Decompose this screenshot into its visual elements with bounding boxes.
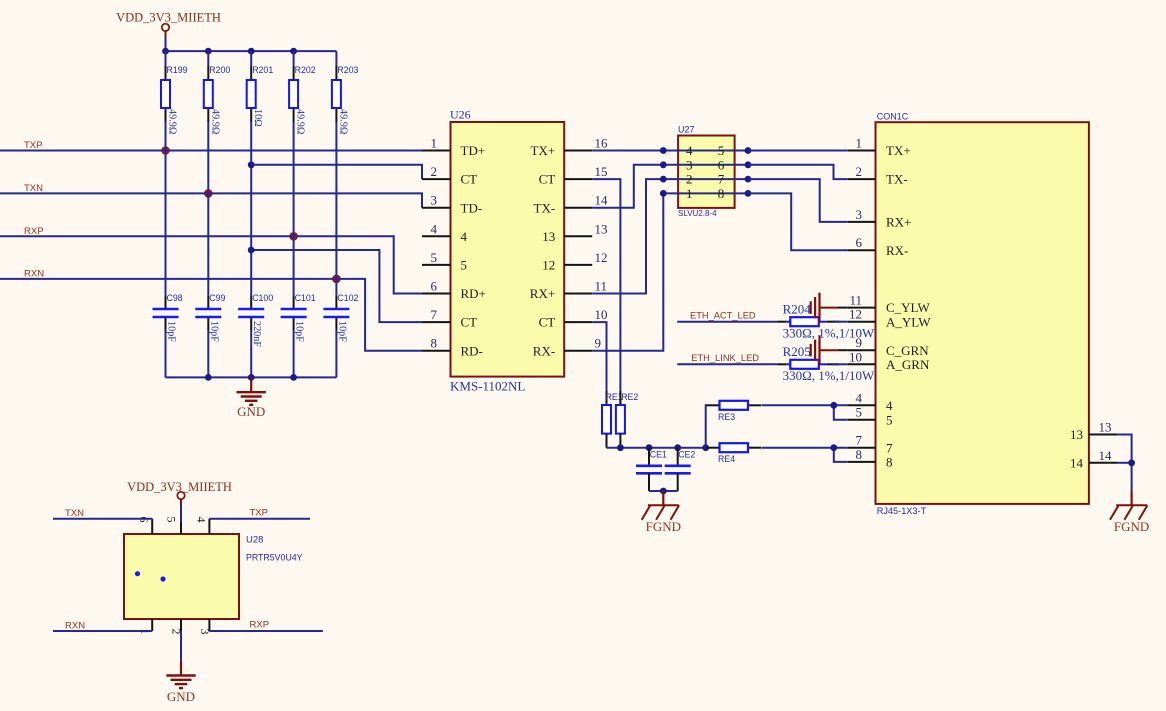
resistor R199 [165, 66, 167, 80]
svg-text:C_GRN: C_GRN [886, 343, 929, 358]
resistor RE4 [706, 443, 762, 464]
resistor R205 [777, 344, 875, 383]
svg-text:TX-: TX- [534, 200, 556, 215]
wire RE4 to CON1C pins 7/8 [762, 448, 848, 462]
junction [162, 48, 169, 55]
U26 pin 8 stub [422, 350, 451, 352]
svg-text:TX+: TX+ [531, 143, 556, 158]
wire TX center-tap to U26 pin 2 [251, 165, 422, 179]
svg-text:2: 2 [856, 164, 863, 179]
svg-text:GND: GND [237, 404, 265, 419]
svg-text:10pF: 10pF [166, 321, 177, 342]
junction [248, 374, 255, 381]
U26 pin 5 stub [422, 264, 451, 266]
svg-text:CT: CT [539, 172, 556, 187]
U26 pin 9 stub [564, 350, 592, 352]
svg-text:4: 4 [461, 229, 468, 244]
junction (red) [204, 189, 213, 198]
svg-text:7: 7 [886, 440, 893, 455]
svg-text:7: 7 [431, 307, 438, 322]
svg-text:10: 10 [595, 307, 608, 322]
U26 pin 3 stub [422, 207, 451, 209]
TVS diode U28 PRTR5V0U4Y [124, 534, 303, 619]
svg-text:RXN: RXN [65, 621, 85, 632]
U28 pin 5 stub [165, 517, 182, 535]
svg-text:5: 5 [431, 250, 438, 265]
CON1C pin 11 stub [848, 293, 931, 316]
ground (rotated) at CON1C pin11 [811, 293, 848, 323]
CON1C pin 9 stub [848, 335, 930, 358]
U26 pin 10 stub [564, 321, 592, 323]
svg-text:16: 16 [595, 136, 609, 151]
svg-text:3: 3 [686, 157, 693, 172]
U28 pin 4 stub [195, 517, 210, 535]
wire TX- to CON1C pin2 [748, 165, 848, 179]
junction [660, 176, 667, 183]
CON1C pin 6 stub [848, 235, 909, 258]
svg-text:TD+: TD+ [461, 143, 486, 158]
wire RX- to CON1C pin6 [748, 193, 848, 250]
svg-text:RX+: RX+ [886, 215, 911, 230]
svg-text:C_YLW: C_YLW [886, 300, 931, 315]
svg-text:49.9Ω: 49.9Ω [337, 109, 348, 135]
junction [660, 488, 667, 495]
ground (rotated) at CON1C pin9 [811, 335, 848, 365]
junction [290, 48, 297, 55]
junction [205, 374, 212, 381]
svg-text:13: 13 [595, 221, 608, 236]
svg-text:14: 14 [1070, 455, 1084, 470]
svg-text:TD-: TD- [461, 200, 483, 215]
svg-text:5: 5 [461, 258, 468, 273]
svg-text:U28: U28 [246, 535, 263, 546]
svg-text:A_GRN: A_GRN [886, 357, 930, 372]
junction [745, 147, 752, 154]
resistor R203 [335, 66, 337, 80]
capacitor C100 [250, 296, 252, 309]
U26 pin 11 stub [564, 293, 592, 295]
ground GND (U28) [166, 661, 195, 704]
wire RE3 left leg [705, 405, 708, 447]
svg-text:A_YLW: A_YLW [886, 314, 931, 329]
svg-text:R201: R201 [252, 65, 273, 75]
svg-text:CT: CT [461, 172, 478, 187]
CON1C pin 12 stub [848, 307, 932, 330]
svg-text:2: 2 [431, 164, 438, 179]
svg-text:RD+: RD+ [461, 286, 486, 301]
U28 pin 1 stub [138, 619, 152, 635]
junction [248, 161, 255, 168]
junction [745, 176, 752, 183]
wire U26 TX- (pin14) to U27 row [592, 165, 663, 208]
resistor R204 [777, 301, 875, 340]
svg-text:SLVU2.8-4: SLVU2.8-4 [678, 209, 717, 218]
svg-text:C101: C101 [295, 293, 316, 303]
wire TXP net [0, 150, 422, 152]
junction (red) [161, 146, 170, 155]
wire R204 to CON1C pin12 [833, 321, 848, 323]
svg-text:4: 4 [886, 398, 893, 413]
U27 pin digits [686, 143, 725, 201]
svg-text:PRTR5V0U4Y: PRTR5V0U4Y [246, 553, 303, 563]
svg-text:TXN: TXN [65, 508, 84, 519]
svg-text:10pF: 10pF [336, 321, 347, 342]
wire CE join [649, 490, 678, 492]
junction [660, 190, 667, 197]
resistor RE3 [706, 401, 762, 422]
wire U28 pin2 to GND [180, 631, 182, 661]
wire TXN net [0, 193, 422, 207]
CON1C pin 3 stub [848, 207, 912, 230]
capacitor C99 [207, 296, 209, 309]
svg-text:4: 4 [686, 143, 693, 158]
svg-text:14: 14 [1099, 448, 1113, 463]
svg-text:R200: R200 [209, 65, 230, 75]
wire C100 to ground bus [250, 330, 252, 377]
resistor R202 [293, 66, 295, 80]
wire U26 TX+ (pin16) to U27 row [592, 150, 663, 152]
svg-text:RXP: RXP [24, 226, 44, 237]
wire RXN net [0, 279, 422, 351]
svg-text:14: 14 [595, 193, 609, 208]
svg-text:9: 9 [595, 336, 602, 351]
wire U26 CT (pin10) down to RE1 [592, 322, 606, 405]
svg-text:C99: C99 [209, 293, 225, 303]
svg-text:13: 13 [1099, 420, 1112, 435]
svg-text:RXP: RXP [250, 620, 270, 631]
svg-text:R203: R203 [337, 65, 358, 75]
wire ETH_ACT_LED to R204 [677, 321, 777, 323]
svg-text:11: 11 [595, 279, 608, 294]
svg-text:1: 1 [686, 186, 693, 201]
svg-text:49.9Ω: 49.9Ω [167, 109, 178, 135]
svg-text:KMS-1102NL: KMS-1102NL [450, 379, 525, 394]
svg-text:11: 11 [849, 293, 862, 308]
junction [660, 161, 667, 168]
junction [646, 444, 653, 451]
svg-text:C98: C98 [167, 293, 183, 303]
junction [745, 190, 752, 197]
junction (red) [332, 275, 341, 284]
U28 pin 6 stub [137, 517, 152, 535]
svg-text:VDD_3V3_MIIETH: VDD_3V3_MIIETH [116, 11, 221, 25]
svg-text:TX+: TX+ [886, 143, 911, 158]
svg-text:6: 6 [856, 235, 863, 250]
U26 pin 6 stub [422, 293, 451, 295]
U26 pin 1 stub [422, 150, 451, 152]
svg-text:1: 1 [856, 136, 863, 151]
resistor R200 [207, 66, 209, 80]
resistor RE2 [616, 391, 639, 448]
power symbol VDD_3V3_MIIETH (U28) [127, 480, 232, 506]
CON1C pin 5 stub [848, 405, 893, 428]
svg-text:8: 8 [431, 336, 438, 351]
svg-text:8: 8 [856, 447, 863, 462]
svg-text:8: 8 [718, 186, 725, 201]
capacitor C98 [165, 296, 167, 309]
U26 pin 4 stub [422, 235, 451, 237]
capacitor C102 [335, 296, 337, 309]
CON1C pin 1 stub [848, 136, 911, 159]
svg-text:CE1: CE1 [650, 449, 667, 459]
ground FGND (shield) [1110, 492, 1149, 534]
svg-text:3: 3 [431, 193, 438, 208]
svg-text:15: 15 [595, 164, 608, 179]
CON1C pin 14 stub [1070, 448, 1117, 471]
svg-text:CE2: CE2 [678, 449, 695, 459]
svg-text:RE3: RE3 [718, 412, 735, 422]
wire RX center-tap to U26 pin 7 [251, 250, 422, 322]
svg-text:FGND: FGND [646, 519, 681, 534]
U28 pin 2 stub [170, 619, 184, 635]
svg-text:TX-: TX- [886, 172, 908, 187]
svg-text:3: 3 [856, 207, 863, 222]
ground GND (capacitor bus) [237, 377, 266, 419]
ground FGND (CE caps) [642, 491, 681, 534]
wire U26 RX- (pin9) to U27 row [592, 193, 663, 350]
svg-text:CT: CT [461, 315, 478, 330]
svg-text:RX-: RX- [533, 343, 555, 358]
svg-text:RE2: RE2 [621, 392, 638, 402]
U26 pin 16 stub [564, 150, 592, 152]
svg-text:13: 13 [542, 229, 555, 244]
wire C98 to ground bus [165, 330, 167, 377]
wire R199 column [165, 51, 167, 296]
svg-text:8: 8 [886, 455, 893, 470]
junction (red) [289, 232, 298, 241]
wire TXP from U28 pin4 [209, 518, 310, 520]
CON1C pin 7 stub [848, 433, 893, 456]
junction [1128, 459, 1135, 466]
svg-text:49.9Ω: 49.9Ω [295, 109, 306, 135]
wire C102 to ground bus [335, 330, 337, 377]
svg-text:10Ω: 10Ω [252, 109, 263, 127]
U28 pin 3 stub [198, 619, 212, 635]
svg-text:ETH_LINK_LED: ETH_LINK_LED [691, 353, 759, 363]
wire R201 column [250, 51, 252, 296]
svg-text:RD-: RD- [461, 343, 483, 358]
svg-text:10pF: 10pF [294, 321, 305, 342]
connector CON1C RJ45-1X3-T [876, 111, 1089, 516]
junction [205, 48, 212, 55]
svg-text:4: 4 [856, 390, 863, 405]
wire RXP from U28 pin3 [209, 630, 323, 632]
wire R202 column [293, 51, 295, 296]
wire RXP net [0, 236, 422, 293]
svg-text:13: 13 [1070, 427, 1083, 442]
junction [617, 444, 624, 451]
svg-text:C100: C100 [252, 293, 273, 303]
svg-text:RX-: RX- [886, 243, 908, 258]
svg-text:U26: U26 [450, 108, 471, 122]
svg-text:10: 10 [849, 349, 862, 364]
svg-text:4: 4 [431, 221, 438, 236]
CON1C pin 4 stub [848, 390, 893, 413]
wire VDD to U28 pin5 [180, 506, 182, 522]
svg-text:7: 7 [856, 433, 863, 448]
junction [290, 374, 297, 381]
svg-text:R202: R202 [295, 65, 316, 75]
wire R200 column [207, 51, 209, 296]
svg-text:6: 6 [431, 279, 438, 294]
resistor R201 [250, 66, 252, 80]
svg-text:5: 5 [886, 412, 893, 427]
junction [830, 402, 837, 409]
svg-text:5: 5 [718, 143, 725, 158]
svg-text:220nF: 220nF [251, 321, 262, 347]
svg-text:4: 4 [195, 517, 209, 523]
svg-text:6: 6 [718, 157, 725, 172]
power symbol VDD_3V3_MIIETH (top) [116, 11, 221, 38]
svg-text:1: 1 [431, 136, 438, 151]
wire CON1C pins 13/14 to FGND [1117, 435, 1132, 492]
wire C99 to ground bus [207, 330, 209, 377]
svg-text:12: 12 [542, 258, 555, 273]
svg-text:TXP: TXP [250, 508, 268, 519]
wire VDD rail to resistor bus [166, 37, 337, 51]
svg-text:R204: R204 [783, 301, 812, 316]
svg-text:12: 12 [595, 250, 608, 265]
CON1C pin 10 stub [848, 349, 930, 372]
wire RX+ to CON1C pin3 [748, 179, 848, 222]
svg-text:7: 7 [718, 172, 725, 187]
svg-text:R199: R199 [167, 65, 188, 75]
svg-text:C102: C102 [337, 293, 358, 303]
svg-text:ETH_ACT_LED: ETH_ACT_LED [690, 311, 756, 321]
U26 pin 12 stub [564, 264, 592, 266]
wire R205 to CON1C pin10 [833, 363, 848, 365]
wire C101 to ground bus [293, 330, 295, 377]
wire RXN to U28 pin1 [53, 630, 152, 632]
wire TXN to U28 pin6 [53, 518, 152, 520]
capacitor CE2 [665, 448, 696, 491]
wire U26 CT (pin15) down to RE2 [592, 179, 620, 405]
CON1C pin 8 stub [848, 447, 893, 470]
U26 pin 14 stub [564, 207, 592, 209]
TVS array U27 SLVU2.8-4 [678, 125, 735, 218]
junction [830, 444, 837, 451]
svg-text:FGND: FGND [1114, 519, 1149, 534]
svg-text:U27: U27 [678, 125, 695, 135]
svg-text:CON1C: CON1C [877, 111, 909, 121]
U26 pin 2 stub [422, 178, 451, 180]
junction [745, 161, 752, 168]
svg-text:RJ45-1X3-T: RJ45-1X3-T [877, 506, 927, 516]
junction [660, 147, 667, 154]
CON1C pin 2 stub [848, 164, 908, 187]
svg-text:10pF: 10pF [208, 321, 219, 342]
junction [674, 444, 681, 451]
transformer U26 KMS-1102NL [431, 108, 609, 394]
CON1C pin 13 stub [1070, 420, 1117, 443]
wire RE ground bus [607, 447, 706, 449]
svg-text:RE4: RE4 [718, 454, 735, 464]
junction [248, 247, 255, 254]
wire ETH_LINK_LED to R205 [677, 363, 777, 365]
capacitor C101 [293, 296, 295, 309]
svg-text:12: 12 [849, 307, 862, 322]
svg-text:RX+: RX+ [530, 286, 555, 301]
resistor RE1 [602, 391, 623, 448]
wire U27 row lines [663, 151, 748, 194]
svg-text:CT: CT [539, 315, 556, 330]
svg-text:GND: GND [167, 689, 195, 704]
wire R203 column [335, 51, 337, 296]
wire TX+ to CON1C pin1 [748, 150, 848, 152]
wire RE3 to CON1C pins 4/5 [762, 405, 848, 419]
svg-text:R205: R205 [783, 344, 811, 359]
capacitor CE1 [636, 448, 667, 491]
svg-text:49.9Ω: 49.9Ω [209, 109, 220, 135]
U26 pin 15 stub [564, 178, 592, 180]
wire capacitor ground bus [166, 376, 337, 378]
U26 pin 7 stub [422, 321, 451, 323]
svg-text:2: 2 [686, 172, 693, 187]
svg-text:330Ω, 1%,1/10W: 330Ω, 1%,1/10W [783, 368, 875, 383]
svg-text:5: 5 [856, 405, 863, 420]
wire U26 RX+ (pin11) to U27 row [592, 179, 663, 293]
svg-text:5: 5 [165, 517, 179, 523]
junction [702, 444, 709, 451]
junction [248, 48, 255, 55]
U26 pin 13 stub [564, 235, 592, 237]
svg-text:9: 9 [856, 335, 863, 350]
